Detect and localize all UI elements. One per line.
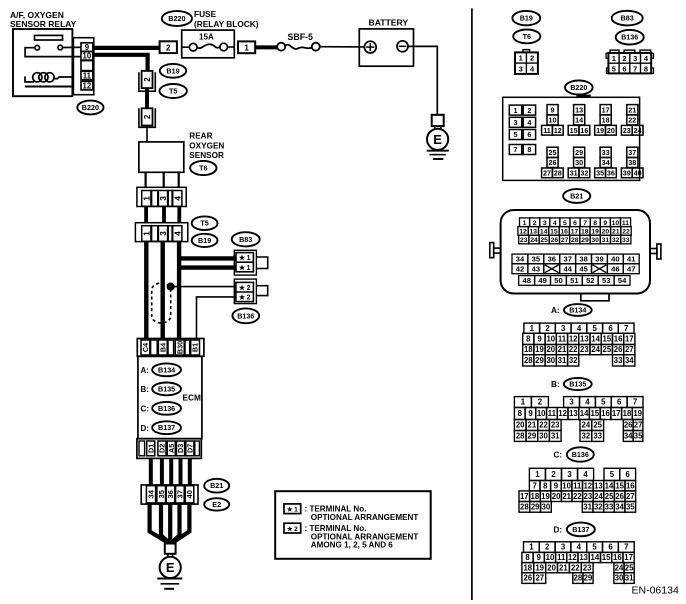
svg-text:18: 18 — [531, 492, 540, 501]
svg-text:33: 33 — [622, 237, 630, 244]
svg-text:1: 1 — [141, 231, 151, 236]
ECM connector oval B: B135 — [152, 383, 181, 396]
svg-text:28: 28 — [574, 574, 583, 583]
svg-text:4: 4 — [172, 196, 182, 201]
svg-text:33: 33 — [605, 502, 614, 511]
svg-text:T5: T5 — [169, 87, 177, 96]
svg-text:4: 4 — [172, 231, 182, 236]
legend note box: terminal number optional arrangement — [275, 491, 431, 559]
svg-text:27: 27 — [626, 492, 635, 501]
connector T6 strip pins 1 3 4 — [137, 187, 186, 206]
svg-text:B19: B19 — [520, 14, 533, 23]
svg-text:12: 12 — [554, 126, 562, 135]
dashed optional-wiring capsule around pin3 wire — [152, 283, 171, 323]
ground E (battery side) — [427, 115, 449, 159]
svg-text:3: 3 — [158, 196, 168, 201]
svg-text:14: 14 — [575, 116, 583, 125]
svg-text:7: 7 — [624, 324, 628, 333]
svg-text:15: 15 — [590, 409, 599, 418]
svg-text:16: 16 — [626, 481, 635, 490]
svg-text:12: 12 — [583, 481, 592, 490]
svg-text:EN-06134: EN-06134 — [632, 585, 679, 597]
battery BAT — [359, 18, 413, 67]
svg-text:27: 27 — [634, 421, 643, 430]
svg-text:50: 50 — [554, 276, 562, 285]
svg-text:40: 40 — [611, 255, 619, 264]
svg-text:24: 24 — [594, 492, 603, 501]
svg-text:B19: B19 — [198, 236, 211, 245]
svg-text:25: 25 — [593, 421, 602, 430]
svg-text:4: 4 — [577, 543, 582, 552]
svg-text:B220: B220 — [168, 14, 185, 23]
svg-text:1: 1 — [529, 543, 534, 552]
svg-text:18: 18 — [602, 116, 610, 125]
connector view B136 box pins 1-35 — [519, 468, 636, 512]
svg-text:★ 2: ★ 2 — [239, 294, 251, 302]
svg-text:12: 12 — [558, 409, 567, 418]
svg-text:BATTERY: BATTERY — [369, 18, 409, 28]
svg-text:(RELAY BLOCK): (RELAY BLOCK) — [194, 19, 259, 29]
wires: B21 pins converge to ground (thick) — [150, 504, 190, 543]
wire: battery negative to ground E — [408, 46, 437, 114]
inline connector 2 (B19-T5) upper half — [139, 71, 155, 91]
svg-text:26: 26 — [624, 421, 633, 430]
svg-text:37: 37 — [563, 255, 571, 264]
svg-text:38: 38 — [628, 158, 636, 167]
svg-text:A:: A: — [141, 366, 149, 375]
svg-text:45: 45 — [579, 264, 588, 273]
terminal block *1 (B83) — [234, 250, 267, 275]
svg-text:B134: B134 — [569, 306, 586, 315]
svg-text:D:: D: — [554, 526, 563, 535]
svg-text:9: 9 — [537, 335, 542, 344]
svg-text:54: 54 — [618, 276, 627, 285]
wire: between inline connector halves (thick) — [145, 88, 149, 108]
svg-text:13: 13 — [530, 229, 538, 236]
svg-text:26: 26 — [551, 237, 559, 244]
svg-text:15: 15 — [603, 335, 612, 344]
svg-text:13: 13 — [569, 409, 578, 418]
svg-text:18: 18 — [623, 409, 632, 418]
svg-text:B1: B1 — [191, 343, 200, 352]
svg-text:20: 20 — [546, 345, 555, 354]
svg-text:4: 4 — [527, 118, 531, 127]
svg-text:27: 27 — [625, 345, 634, 354]
svg-text:34: 34 — [624, 432, 633, 441]
svg-text:8: 8 — [593, 220, 597, 227]
svg-text:17: 17 — [571, 229, 579, 236]
svg-text:5: 5 — [563, 220, 567, 227]
svg-text:34: 34 — [615, 502, 624, 511]
svg-text:5: 5 — [592, 543, 597, 552]
drawing number EN-06134 — [632, 585, 679, 597]
svg-text:36: 36 — [166, 490, 175, 498]
svg-text:10: 10 — [537, 409, 546, 418]
svg-text:3: 3 — [561, 543, 566, 552]
wire: relay pin 10 right then down to connector 2 (thick) — [93, 55, 148, 71]
svg-text:9: 9 — [528, 409, 533, 418]
connector designator oval T5 (lower) — [192, 216, 218, 230]
connector view label B: oval B135 — [551, 378, 592, 390]
svg-text:19: 19 — [633, 409, 642, 418]
svg-text:29: 29 — [528, 432, 537, 441]
svg-text:15: 15 — [550, 229, 558, 236]
svg-text:16: 16 — [560, 229, 568, 236]
svg-text:1: 1 — [535, 470, 540, 479]
fusible link SBF-5 — [277, 32, 320, 51]
svg-text:10: 10 — [546, 335, 555, 344]
svg-text:51: 51 — [570, 276, 579, 285]
svg-text:24: 24 — [591, 345, 600, 354]
svg-text:14: 14 — [605, 481, 614, 490]
svg-text:30: 30 — [546, 356, 555, 365]
svg-text:B:: B: — [141, 385, 149, 394]
wire: T5 pin 3 to ECM pin B4 (thick) — [160, 242, 164, 339]
svg-text:E: E — [433, 132, 442, 147]
svg-text:3: 3 — [569, 398, 574, 407]
svg-text:: TERMINAL No.: : TERMINAL No. — [305, 524, 367, 533]
svg-text:3: 3 — [633, 54, 637, 63]
connector view label A: oval B134 — [551, 304, 592, 316]
svg-text:A:: A: — [551, 306, 560, 315]
svg-text:29: 29 — [581, 237, 589, 244]
svg-text:31: 31 — [558, 356, 567, 365]
svg-text:11: 11 — [548, 409, 557, 418]
svg-text:18: 18 — [524, 345, 533, 354]
svg-text:12: 12 — [519, 229, 527, 236]
svg-text:T6: T6 — [199, 164, 207, 173]
svg-text:25: 25 — [540, 237, 548, 244]
svg-text:43: 43 — [532, 264, 540, 273]
svg-text:40: 40 — [634, 169, 642, 178]
svg-text:15A: 15A — [199, 33, 214, 42]
svg-text:5: 5 — [514, 130, 518, 139]
ECM top connector strip pins C4 B4 B30 B1 — [137, 339, 204, 357]
svg-text:32: 32 — [594, 502, 603, 511]
ECM connector oval D: B137 — [152, 421, 181, 434]
svg-text:16: 16 — [580, 126, 588, 135]
svg-text:20: 20 — [602, 229, 610, 236]
svg-text:29: 29 — [575, 148, 583, 157]
svg-text:28: 28 — [516, 432, 525, 441]
svg-text:5: 5 — [612, 64, 616, 73]
svg-text:7: 7 — [633, 64, 637, 73]
svg-text:28: 28 — [554, 169, 562, 178]
svg-text:8: 8 — [518, 409, 523, 418]
svg-text:1: 1 — [514, 106, 518, 115]
connector view B137 box pins 1-31 — [522, 542, 634, 584]
svg-text:14: 14 — [591, 335, 600, 344]
wire branch: pin 4 to terminal *1 upper (thick) — [177, 256, 236, 260]
svg-text:4: 4 — [577, 324, 582, 333]
svg-text:B220: B220 — [82, 103, 99, 112]
svg-text:35: 35 — [626, 502, 635, 511]
terminal block *2 (B136) — [234, 279, 267, 304]
svg-text:23: 23 — [520, 237, 528, 244]
svg-text:19: 19 — [535, 345, 544, 354]
svg-text:37: 37 — [628, 148, 636, 157]
svg-text:27: 27 — [535, 574, 544, 583]
relay K1 connector strip B220 pins 9 10 11 12 — [73, 38, 93, 95]
svg-text:D3: D3 — [176, 444, 185, 453]
svg-text:26: 26 — [549, 158, 557, 167]
svg-text:1: 1 — [523, 220, 527, 227]
svg-text:21: 21 — [628, 106, 636, 115]
svg-text:22: 22 — [569, 345, 578, 354]
svg-text:32: 32 — [612, 237, 620, 244]
svg-text:27: 27 — [561, 237, 569, 244]
svg-text:10: 10 — [612, 220, 620, 227]
svg-text:6: 6 — [608, 324, 613, 333]
ECM connector oval A: B134 — [152, 363, 181, 376]
svg-text:1: 1 — [530, 324, 535, 333]
ground E2 (ECM side) — [157, 544, 182, 589]
svg-text:6: 6 — [608, 543, 613, 552]
svg-text:20: 20 — [607, 126, 615, 135]
svg-text:B19: B19 — [166, 66, 179, 75]
svg-text:31: 31 — [570, 169, 578, 178]
svg-text:2: 2 — [530, 54, 534, 63]
rear oxygen sensor label — [189, 132, 224, 160]
svg-text:3: 3 — [519, 65, 523, 74]
svg-text:6: 6 — [573, 220, 577, 227]
svg-text:28: 28 — [571, 237, 579, 244]
svg-text:25: 25 — [625, 563, 634, 572]
svg-text:39: 39 — [595, 255, 603, 264]
svg-text:8: 8 — [526, 335, 531, 344]
connector view label C: oval B136 — [554, 447, 594, 461]
svg-text:15: 15 — [615, 481, 624, 490]
connector view label oval T6 — [513, 30, 540, 44]
svg-text:5: 5 — [593, 324, 598, 333]
svg-text:24: 24 — [634, 126, 642, 135]
svg-text:28: 28 — [524, 356, 533, 365]
svg-text:9: 9 — [537, 553, 542, 562]
svg-text:T6: T6 — [523, 32, 531, 41]
svg-text:53: 53 — [602, 276, 610, 285]
svg-text:: TERMINAL No.: : TERMINAL No. — [305, 504, 367, 513]
svg-text:1: 1 — [244, 44, 249, 53]
svg-text:8: 8 — [527, 145, 531, 154]
svg-text:OXYGEN: OXYGEN — [189, 141, 224, 150]
wire: inline connector to rear oxygen sensor — [146, 127, 148, 142]
svg-text:22: 22 — [573, 492, 582, 501]
svg-text:29: 29 — [535, 356, 544, 365]
svg-text:35: 35 — [532, 255, 541, 264]
svg-text:6: 6 — [622, 64, 626, 73]
svg-text:17: 17 — [624, 553, 633, 562]
svg-text:29: 29 — [531, 502, 540, 511]
svg-text:2: 2 — [551, 470, 556, 479]
svg-text:7: 7 — [624, 543, 628, 552]
svg-text:25: 25 — [605, 492, 614, 501]
svg-text:26: 26 — [524, 574, 533, 583]
svg-text:27: 27 — [543, 169, 551, 178]
svg-text:19: 19 — [541, 492, 550, 501]
svg-text:2: 2 — [545, 543, 550, 552]
svg-text:SENSOR: SENSOR — [189, 151, 224, 160]
svg-text:17: 17 — [520, 492, 529, 501]
fuse terminal 1 box — [238, 41, 255, 53]
svg-text:34: 34 — [602, 158, 610, 167]
svg-text:11: 11 — [558, 335, 567, 344]
svg-text:B136: B136 — [572, 450, 589, 459]
svg-text:REAR: REAR — [189, 132, 212, 141]
svg-text:1: 1 — [519, 54, 523, 63]
svg-text:7: 7 — [514, 145, 518, 154]
fuse F 15A (relay block) — [182, 30, 235, 58]
svg-text:D1: D1 — [146, 444, 155, 453]
svg-text:1: 1 — [612, 54, 616, 63]
wire: SBF-5 to battery positive — [320, 46, 365, 48]
connector view T6/B19 2x2 pins 1-4 — [515, 50, 538, 74]
svg-text:34: 34 — [516, 255, 525, 264]
connector T5-B19 strip pins 1 3 4 — [135, 223, 187, 242]
connector view label oval B136 — [616, 30, 644, 45]
svg-text:20: 20 — [552, 492, 561, 501]
svg-text:20: 20 — [516, 421, 525, 430]
svg-text:21: 21 — [562, 492, 571, 501]
svg-text:31: 31 — [602, 237, 610, 244]
svg-text:2: 2 — [545, 324, 550, 333]
svg-text:B135: B135 — [569, 380, 586, 389]
svg-text:3: 3 — [543, 220, 547, 227]
svg-text:D7: D7 — [185, 444, 194, 453]
svg-text:33: 33 — [614, 356, 623, 365]
connector designator oval T6 (sensor) — [190, 161, 216, 175]
svg-text:FUSE: FUSE — [194, 9, 217, 19]
svg-text:23: 23 — [583, 563, 592, 572]
svg-text:34: 34 — [147, 489, 156, 498]
svg-text:26: 26 — [614, 345, 623, 354]
svg-text:41: 41 — [627, 255, 636, 264]
connector designator oval B19 (upper) — [160, 64, 186, 78]
svg-text:31: 31 — [551, 432, 560, 441]
svg-text:33: 33 — [593, 432, 602, 441]
svg-text:30: 30 — [591, 237, 599, 244]
connector view label oval B19 — [512, 11, 540, 25]
svg-text:21: 21 — [558, 345, 567, 354]
svg-text:6: 6 — [626, 470, 631, 479]
svg-text:33: 33 — [602, 148, 610, 157]
wire: junction to terminal *2 upper — [171, 286, 236, 288]
svg-text:B136: B136 — [621, 33, 638, 42]
wires: ECM to connector B21 pins (thick) — [151, 458, 190, 485]
svg-text:23: 23 — [623, 126, 631, 135]
svg-text:B137: B137 — [572, 525, 589, 534]
svg-text:4: 4 — [583, 470, 588, 479]
svg-text:7: 7 — [633, 398, 637, 407]
svg-text:6: 6 — [527, 130, 531, 139]
svg-text:B21: B21 — [210, 481, 223, 490]
svg-text:D2: D2 — [158, 444, 167, 453]
fuse F ovals and label: B220 FUSE (RELAY BLOCK) — [162, 9, 259, 29]
svg-text:9: 9 — [554, 481, 559, 490]
wire: T5 pin 4 to ECM pin B30 (thick) — [177, 242, 181, 339]
connector designator oval T5 (upper) — [160, 84, 187, 98]
svg-text:30: 30 — [575, 158, 583, 167]
svg-text:36: 36 — [548, 255, 556, 264]
svg-text:26: 26 — [615, 492, 624, 501]
svg-text:3: 3 — [567, 470, 572, 479]
svg-text:20: 20 — [547, 563, 556, 572]
connector designator oval B83 — [232, 232, 260, 246]
svg-text:2: 2 — [143, 114, 152, 119]
svg-text:16: 16 — [601, 409, 610, 418]
svg-text:18: 18 — [523, 563, 532, 572]
fuse terminal 2 box — [160, 41, 177, 53]
svg-text:SENSOR RELAY: SENSOR RELAY — [10, 19, 77, 29]
svg-text:9: 9 — [85, 43, 90, 52]
svg-text:E2: E2 — [212, 500, 221, 509]
svg-text:22: 22 — [622, 229, 630, 236]
svg-text:16: 16 — [614, 335, 623, 344]
svg-text:1: 1 — [141, 196, 151, 201]
svg-text:23: 23 — [584, 492, 593, 501]
svg-text:B136: B136 — [237, 311, 254, 320]
connector view label oval B83 — [612, 11, 643, 26]
svg-text:14: 14 — [591, 553, 600, 562]
rear oxygen sensor box — [139, 142, 184, 172]
svg-text:SBF-5: SBF-5 — [288, 32, 314, 42]
svg-text:B134: B134 — [158, 365, 175, 374]
svg-text:21: 21 — [528, 421, 537, 430]
relay K1: A/F oxygen sensor relay box — [13, 29, 81, 96]
svg-text:11: 11 — [557, 553, 566, 562]
svg-text:B135: B135 — [158, 384, 175, 393]
svg-text:29: 29 — [584, 574, 593, 583]
svg-text:22: 22 — [539, 421, 548, 430]
svg-text:15: 15 — [570, 126, 578, 135]
svg-text:49: 49 — [538, 276, 546, 285]
svg-text:★ 1: ★ 1 — [287, 506, 298, 514]
svg-text:17: 17 — [625, 335, 634, 344]
connector view label oval B21 — [563, 189, 590, 203]
svg-text:34: 34 — [625, 356, 634, 365]
svg-text:42: 42 — [516, 264, 524, 273]
svg-text:10: 10 — [562, 481, 571, 490]
svg-text:11: 11 — [573, 481, 582, 490]
svg-text:36: 36 — [607, 169, 615, 178]
svg-text:5: 5 — [610, 470, 615, 479]
svg-text:17: 17 — [612, 409, 621, 418]
svg-text:17: 17 — [602, 106, 610, 115]
relay K1 label: A/F, OXYGEN SENSOR RELAY — [10, 10, 77, 29]
svg-text:32: 32 — [580, 169, 588, 178]
connector B21-E2 strip pins 34 35 36 37 40 — [141, 485, 198, 504]
svg-text:23: 23 — [580, 345, 589, 354]
svg-text:18: 18 — [581, 229, 589, 236]
svg-text:37: 37 — [176, 490, 185, 498]
svg-text:11: 11 — [622, 220, 629, 227]
svg-text:31: 31 — [625, 574, 634, 583]
svg-text:7: 7 — [583, 220, 587, 227]
svg-text:B137: B137 — [158, 423, 175, 432]
wire: fuse terminal 1 to fusible link SBF-5 (thick) — [255, 45, 277, 49]
junction dot on optional wire — [167, 283, 174, 290]
svg-text:22: 22 — [628, 116, 636, 125]
wires: sensor to connector T6 pins — [146, 172, 179, 188]
svg-text:21: 21 — [559, 563, 568, 572]
svg-text:15: 15 — [602, 553, 611, 562]
svg-text:4: 4 — [585, 398, 590, 407]
svg-text:3: 3 — [514, 118, 518, 127]
svg-text:38: 38 — [579, 255, 587, 264]
svg-text:19: 19 — [596, 126, 604, 135]
wire: T5 pin 1 to ECM pin C4 (thick) — [144, 242, 148, 339]
svg-text:5: 5 — [601, 398, 606, 407]
svg-text:48: 48 — [522, 276, 530, 285]
